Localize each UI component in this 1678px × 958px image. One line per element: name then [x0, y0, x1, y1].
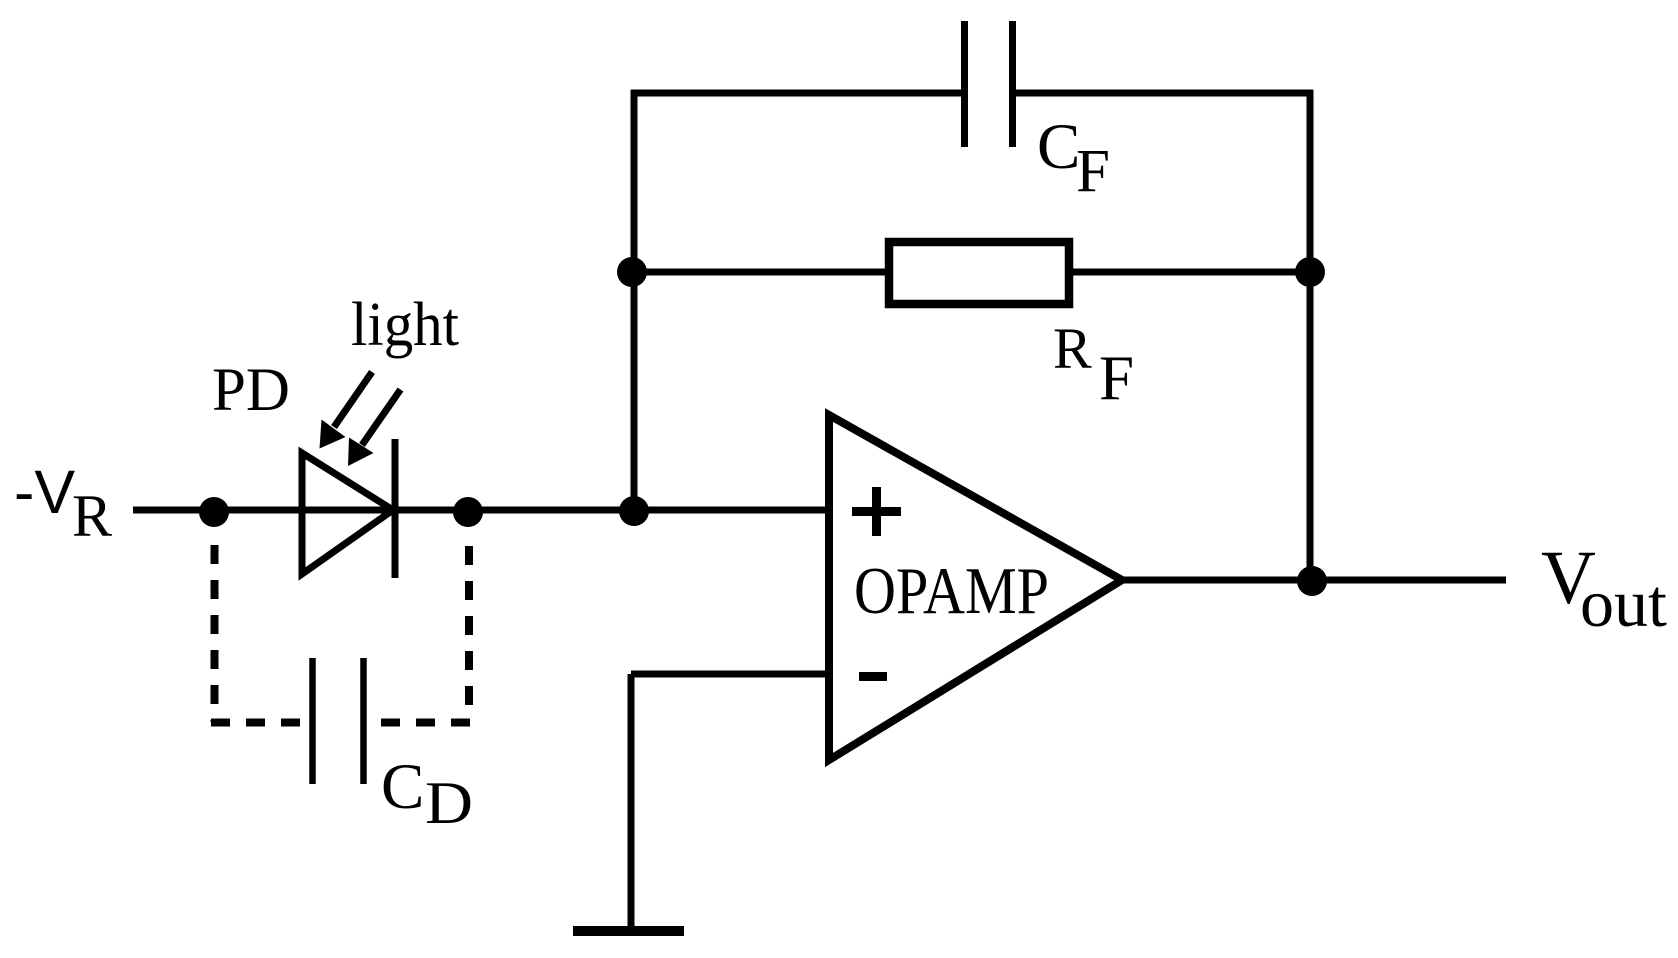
svg-text:C: C: [1037, 111, 1080, 183]
svg-text:OPAMP: OPAMP: [854, 554, 1049, 628]
svg-text:D: D: [425, 770, 473, 836]
svg-text:R: R: [72, 483, 112, 549]
svg-text:light: light: [351, 291, 459, 359]
svg-text:-V: -V: [14, 458, 75, 526]
svg-text:R: R: [1053, 316, 1092, 381]
svg-text:out: out: [1580, 565, 1667, 641]
svg-text:F: F: [1076, 138, 1110, 205]
svg-text:PD: PD: [212, 357, 290, 424]
svg-text:C: C: [381, 751, 424, 823]
svg-text:F: F: [1099, 343, 1134, 413]
